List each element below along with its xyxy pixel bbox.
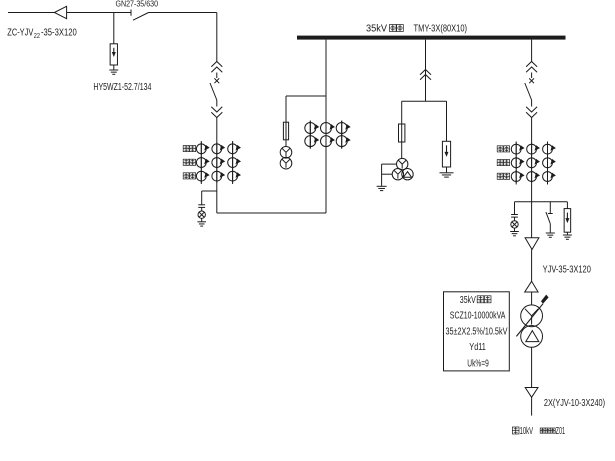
svg-text:Yd11: Yd11	[469, 342, 486, 353]
svg-text:HY5WZ1-52.7/134: HY5WZ1-52.7/134	[93, 82, 151, 93]
svg-text:Z01: Z01	[556, 426, 566, 437]
svg-text:35±2X2.5%/10.5kV: 35±2X2.5%/10.5kV	[446, 326, 508, 337]
svg-text:GN27-35/630: GN27-35/630	[116, 0, 159, 9]
svg-text:Uk%=9: Uk%=9	[467, 359, 489, 370]
svg-text:-35-3X120: -35-3X120	[41, 28, 77, 39]
svg-text:YJV-35-3X120: YJV-35-3X120	[543, 265, 592, 276]
svg-text:35kV: 35kV	[460, 295, 476, 306]
svg-text:2X(YJV-10-3X240): 2X(YJV-10-3X240)	[544, 398, 605, 409]
svg-text:22: 22	[34, 33, 40, 40]
svg-text:SCZ10-10000kVA: SCZ10-10000kVA	[450, 310, 506, 321]
svg-text:10kV: 10kV	[520, 426, 534, 437]
svg-text:ZC-YJV: ZC-YJV	[7, 28, 33, 39]
svg-text:TMY-3X(80X10): TMY-3X(80X10)	[414, 24, 468, 35]
svg-text:35kV: 35kV	[366, 24, 387, 35]
